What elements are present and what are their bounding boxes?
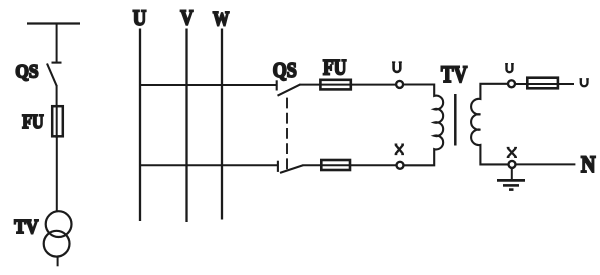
wire QS to fuse FU: [56, 85, 58, 106]
wire terminal u to fuse: [516, 83, 575, 85]
svg-text:FU: FU: [22, 111, 44, 133]
fuse FU (left) body: [52, 106, 63, 136]
wire QS to fuse FU (upper branch): [300, 84, 397, 86]
wire phase W bus: [221, 29, 223, 220]
svg-text:W: W: [213, 8, 229, 30]
terminal u: [508, 80, 515, 87]
busbar: [27, 22, 80, 24]
wire phase V bus: [185, 29, 187, 223]
wire lower tap from U bus to QS: [140, 164, 278, 166]
label u terminal: [505, 64, 514, 73]
svg-text:TV: TV: [441, 62, 468, 87]
terminal X: [397, 162, 404, 169]
wire below transformer TV: [57, 257, 59, 266]
wire bus to QS contact: [56, 23, 58, 62]
fuse FU (upper) body: [320, 80, 350, 90]
fuse FU (secondary) body: [527, 78, 558, 89]
disconnector QS lower fixed contact: [277, 161, 279, 172]
svg-text:FU: FU: [323, 56, 347, 80]
terminal x: [509, 161, 516, 168]
wire QS to fuse (lower branch): [303, 164, 397, 166]
transformer TV (left) secondary circle: [44, 231, 70, 257]
ground bar 1: [497, 179, 525, 182]
ground stem: [511, 168, 513, 180]
svg-text:U: U: [133, 5, 147, 30]
disconnector QS (left) blade: [47, 64, 57, 87]
disconnector QS lower blade: [280, 165, 303, 173]
svg-text:TV: TV: [14, 216, 39, 238]
wire phase U bus: [139, 29, 141, 222]
svg-text:QS: QS: [273, 58, 297, 82]
svg-text:N: N: [581, 152, 596, 177]
wire through fuse FU (left): [56, 105, 58, 138]
terminal U: [396, 81, 403, 88]
disconnector QS upper fixed contact: [276, 80, 278, 90]
wire upper tap from U bus to QS: [140, 84, 277, 86]
svg-text:V: V: [180, 6, 194, 30]
label X terminal: [395, 144, 404, 154]
fuse (lower) body: [321, 160, 350, 170]
wire terminal U to primary winding: [403, 84, 434, 86]
transformer TV primary winding: [404, 84, 444, 166]
transformer TV (left) primary circle: [46, 211, 72, 237]
label U terminal: [392, 62, 402, 72]
svg-text:QS: QS: [15, 61, 38, 82]
ground bar 3: [509, 188, 514, 191]
ground bar 2: [503, 184, 519, 187]
transformer core: [454, 94, 457, 146]
wire terminal x to N: [516, 163, 575, 165]
linkage (dashed) between QS poles: [286, 98, 288, 171]
disconnector QS upper blade: [278, 84, 301, 95]
label u (right end): [580, 79, 589, 87]
disconnector QS (left) fixed contact: [52, 62, 62, 64]
wire fuse to transformer TV: [56, 138, 58, 213]
transformer TV secondary winding: [471, 84, 508, 165]
label x terminal: [507, 148, 517, 158]
